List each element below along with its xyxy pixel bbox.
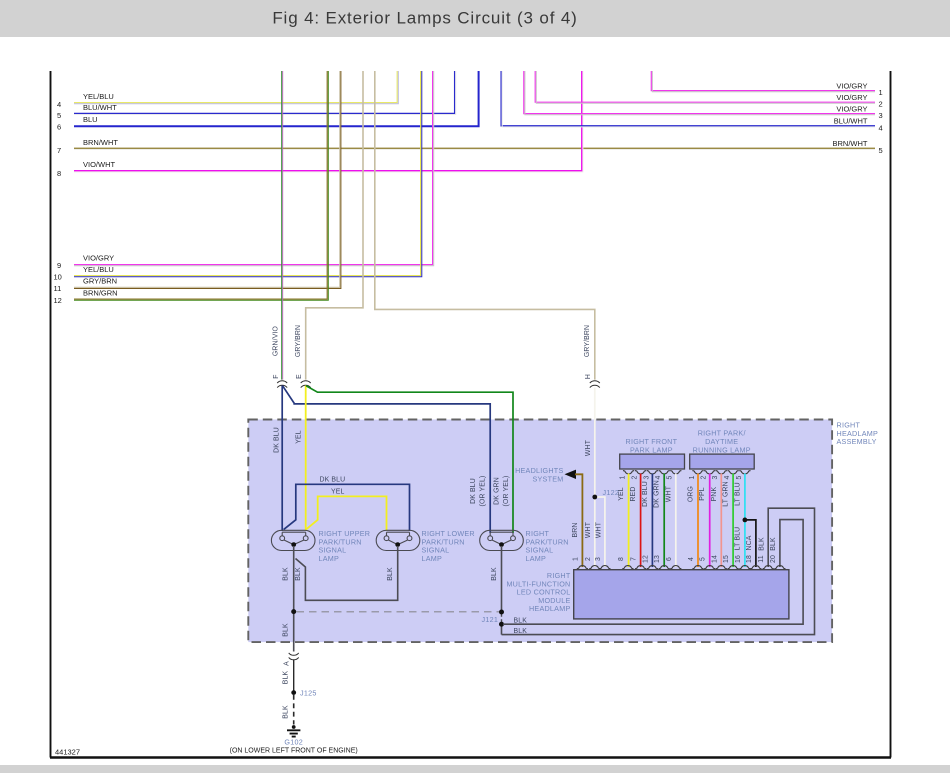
- lamp RIGHT UPPER PARK/TURN SIGNAL LAMP: [271, 530, 315, 550]
- svg-text:LT BLU: LT BLU: [734, 527, 741, 551]
- wire 8 VIO/WHT: [74, 71, 582, 171]
- svg-text:BLK: BLK: [770, 537, 777, 551]
- svg-text:12: 12: [642, 555, 649, 563]
- wire BLK A to J125: [293, 660, 295, 692]
- svg-text:2: 2: [632, 475, 639, 479]
- svg-text:20: 20: [770, 555, 777, 563]
- junction dot on LT BLU: [743, 518, 748, 523]
- header bar: [0, 0, 950, 37]
- svg-text:GRY/BRN: GRY/BRN: [584, 325, 591, 357]
- lamp RIGHT PARK/TURN SIGNAL LAMP: [480, 530, 524, 550]
- svg-text:441327: 441327: [55, 748, 80, 757]
- svg-text:ORG: ORG: [688, 486, 695, 502]
- svg-text:BRN/WHT: BRN/WHT: [833, 139, 868, 148]
- svg-text:BLK: BLK: [759, 537, 766, 551]
- svg-text:WHT: WHT: [585, 439, 592, 456]
- svg-text:18: 18: [746, 555, 753, 563]
- svg-text:BLU: BLU: [83, 115, 98, 124]
- svg-text:SYSTEM: SYSTEM: [532, 474, 563, 483]
- module pin numbers: [572, 555, 777, 563]
- wire BLK lamp3 ground drop: [501, 546, 503, 612]
- svg-text:DK BLU: DK BLU: [274, 427, 281, 453]
- wire DK BLU from connector F to lamp1 left terminal: [281, 386, 283, 532]
- svg-text:2: 2: [585, 557, 592, 561]
- svg-text:VIO/GRY: VIO/GRY: [836, 105, 867, 114]
- page border left: [50, 71, 52, 758]
- svg-text:5: 5: [736, 475, 743, 479]
- ground G102: [292, 725, 296, 729]
- svg-text:11: 11: [54, 284, 62, 293]
- svg-text:(ON LOWER LEFT FRONT OF ENGINE: (ON LOWER LEFT FRONT OF ENGINE): [230, 748, 358, 755]
- lamp RIGHT LOWER PARK/TURN SIGNAL LAMP: [376, 530, 420, 550]
- svg-text:WHT: WHT: [596, 521, 603, 538]
- svg-text:WHT: WHT: [585, 521, 592, 538]
- svg-text:4: 4: [879, 124, 883, 133]
- svg-text:3: 3: [712, 475, 719, 479]
- svg-text:BRN/GRN: BRN/GRN: [83, 289, 118, 298]
- svg-text:Fig 4: Exterior Lamps Circuit: Fig 4: Exterior Lamps Circuit (3 of 4): [272, 9, 577, 28]
- wire BLK lamp1 ground drop: [293, 546, 295, 640]
- svg-text:6: 6: [666, 557, 673, 561]
- junction J125 dot: [291, 690, 296, 695]
- svg-text:15: 15: [723, 555, 730, 563]
- svg-text:11: 11: [758, 555, 765, 562]
- svg-text:7: 7: [57, 146, 61, 155]
- wire 12 BRN/GRN: [74, 71, 327, 299]
- svg-text:5: 5: [879, 146, 883, 155]
- left pin labels: [54, 92, 119, 305]
- svg-text:DK GRN: DK GRN: [494, 477, 501, 505]
- wire 2 right VIO/GRY: [535, 71, 875, 102]
- wire GRY/BRN to connector E: [306, 71, 363, 380]
- svg-text:DK BLU: DK BLU: [470, 478, 477, 504]
- wire BLK J125 to ground (dashed): [293, 695, 295, 725]
- svg-text:J122: J122: [603, 488, 620, 497]
- connector E: [301, 381, 311, 388]
- wire WHT pin5 to module pin 6: [675, 474, 677, 568]
- junction J121 dots: [499, 610, 504, 615]
- arrow to headlights system: [565, 470, 577, 479]
- svg-text:DK BLU: DK BLU: [320, 477, 346, 484]
- svg-text:LT GRN: LT GRN: [723, 481, 730, 507]
- svg-text:1: 1: [689, 475, 696, 479]
- wire NCA branch to module pin 18: [745, 520, 756, 567]
- wire 3 right VIO/GRY: [524, 71, 875, 114]
- svg-text:G102: G102: [284, 738, 303, 747]
- svg-text:13: 13: [654, 555, 661, 563]
- svg-text:12: 12: [54, 296, 62, 305]
- svg-text:A: A: [284, 661, 291, 666]
- wire DK GRN pin4 to module pin 13: [663, 474, 665, 568]
- svg-text:LAMP: LAMP: [422, 554, 443, 563]
- wire 11 GRY/BRN: [74, 71, 340, 287]
- wire BLK module pin 20 return (inner loop): [503, 520, 803, 625]
- wire DK BLU bridge lamp1 to lamp2: [284, 484, 410, 531]
- connector F: [277, 381, 287, 388]
- wire 10 YEL/BLU: [74, 71, 421, 276]
- svg-text:WHT: WHT: [665, 485, 672, 502]
- label RIGHT HEADLAMP ASSEMBLY: [837, 421, 879, 447]
- svg-text:YEL/BLU: YEL/BLU: [83, 92, 114, 101]
- wire ORG pin1 to module pin 4: [697, 474, 699, 568]
- svg-text:YEL: YEL: [331, 489, 344, 496]
- svg-text:2: 2: [879, 100, 883, 109]
- svg-text:LAMP: LAMP: [319, 554, 340, 563]
- svg-text:BLK: BLK: [387, 567, 394, 581]
- svg-text:BLK: BLK: [283, 567, 290, 581]
- wire 1 right VIO/GRY: [651, 71, 875, 91]
- svg-text:4: 4: [724, 475, 731, 479]
- svg-text:14: 14: [711, 555, 718, 563]
- wire 9 VIO/GRY: [74, 71, 433, 265]
- page border right: [890, 71, 892, 758]
- wire PPL pin2 to module pin 5: [709, 474, 711, 568]
- wire YEL pin1 to module pin 8: [628, 474, 630, 568]
- svg-text:BRN/WHT: BRN/WHT: [83, 138, 118, 147]
- wire LT GRN pin4 to module pin 15: [732, 474, 734, 568]
- junction dot lamp1 ground: [291, 609, 296, 614]
- svg-text:5: 5: [700, 557, 707, 561]
- svg-text:E: E: [296, 374, 303, 379]
- svg-text:(OR YEL): (OR YEL): [503, 476, 510, 507]
- wire RED pin2 to module pin 7: [640, 474, 642, 568]
- svg-text:BLK: BLK: [283, 705, 290, 719]
- svg-text:4: 4: [655, 475, 662, 479]
- svg-text:BLK: BLK: [283, 623, 290, 637]
- svg-text:8: 8: [57, 169, 61, 178]
- wire YEL from connector E to lamp1 right terminal: [305, 386, 307, 532]
- svg-text:NCA: NCA: [746, 535, 753, 550]
- svg-text:HEADLAMP: HEADLAMP: [529, 604, 571, 613]
- svg-text:BLK: BLK: [491, 567, 498, 581]
- connector H: [590, 381, 600, 388]
- svg-text:YEL: YEL: [618, 487, 625, 500]
- wire 5 BLU/WHT: [74, 71, 455, 113]
- svg-text:RUNNING LAMP: RUNNING LAMP: [693, 445, 751, 454]
- svg-text:2: 2: [701, 475, 708, 479]
- svg-text:LT BLU: LT BLU: [734, 482, 741, 506]
- pins 1-5 of running lamp connector: [692, 471, 750, 474]
- svg-text:BRN: BRN: [572, 523, 579, 538]
- svg-text:RED: RED: [630, 487, 637, 502]
- wire LT BLU pin5 to module pin 16: [744, 474, 746, 568]
- footer bar: [0, 765, 950, 773]
- svg-text:VIO/GRY: VIO/GRY: [836, 82, 867, 91]
- wire GRY/BRN to connector H: [375, 71, 595, 380]
- svg-text:3: 3: [879, 111, 883, 120]
- wire 6 BLU: [74, 71, 479, 126]
- svg-text:F: F: [273, 374, 280, 378]
- wire BLK module pin 11 return (outer loop): [502, 508, 815, 634]
- wire GRN/VIO to connector F: [281, 71, 283, 380]
- svg-text:3: 3: [643, 475, 650, 479]
- svg-text:VIO/GRY: VIO/GRY: [83, 254, 114, 263]
- svg-text:16: 16: [735, 555, 742, 563]
- wire BRN to module pin 1: [575, 474, 582, 567]
- wire WHT from connector H down to junction J122: [594, 388, 596, 567]
- svg-text:BLU/WHT: BLU/WHT: [834, 117, 868, 126]
- svg-text:YEL: YEL: [296, 430, 303, 443]
- svg-text:BLK: BLK: [514, 618, 528, 625]
- wire 7 BRN/WHT: [74, 147, 875, 149]
- wire DK BLU (OR YEL) branch from F to lamp3 left terminal: [283, 386, 491, 533]
- wire YEL bridge lamp1 to lamp2: [306, 496, 387, 531]
- svg-text:6: 6: [57, 123, 61, 132]
- svg-text:GRN/VIO: GRN/VIO: [273, 325, 280, 356]
- svg-text:3: 3: [595, 557, 602, 561]
- svg-text:DK GRN: DK GRN: [654, 480, 661, 508]
- svg-text:BLK: BLK: [283, 671, 290, 685]
- wire 4 right BLU/WHT: [501, 71, 875, 126]
- svg-text:J121: J121: [482, 615, 499, 624]
- svg-text:5: 5: [667, 475, 674, 479]
- svg-text:BLK: BLK: [295, 567, 302, 581]
- svg-text:PPL: PPL: [699, 487, 706, 500]
- svg-text:VIO/WHT: VIO/WHT: [83, 160, 115, 169]
- svg-text:5: 5: [57, 111, 61, 120]
- svg-text:LAMP: LAMP: [526, 554, 547, 563]
- svg-text:GRY/BRN: GRY/BRN: [83, 277, 117, 286]
- wire 4 YEL/BLU: [74, 71, 397, 103]
- svg-text:J125: J125: [300, 689, 317, 698]
- svg-text:1: 1: [620, 475, 627, 479]
- svg-text:VIO/GRY: VIO/GRY: [836, 93, 867, 102]
- svg-text:H: H: [585, 374, 592, 379]
- wire BLK from box to connector A: [293, 640, 295, 652]
- module RIGHT MULTI-FUNCTION LED CONTROL MODULE HEADLAMP: [574, 570, 789, 619]
- wire J121 dashed junction line: [297, 611, 500, 613]
- svg-text:(OR YEL): (OR YEL): [480, 476, 487, 507]
- pins 1-5 of park lamp connector: [623, 471, 681, 474]
- svg-text:ASSEMBLY: ASSEMBLY: [837, 437, 877, 446]
- svg-text:8: 8: [618, 557, 625, 561]
- junction J122 dot: [592, 495, 597, 500]
- right pin labels: [833, 82, 883, 156]
- svg-text:YEL/BLU: YEL/BLU: [83, 265, 114, 274]
- svg-text:4: 4: [57, 100, 61, 109]
- svg-text:9: 9: [57, 261, 61, 270]
- svg-text:DK BLU: DK BLU: [642, 481, 649, 507]
- svg-text:1: 1: [572, 557, 579, 561]
- svg-text:PARK LAMP: PARK LAMP: [630, 445, 673, 454]
- wire WHT branch J122 to pin 3: [595, 497, 605, 567]
- svg-text:7: 7: [631, 557, 638, 561]
- module top pin arcs: [577, 566, 786, 569]
- wire DK GRN (OR YEL) from E to lamp3 right terminal: [306, 386, 513, 533]
- wire BLK lamp2 ground loop to lamp1: [296, 546, 398, 600]
- svg-text:GRY/BRN: GRY/BRN: [295, 325, 302, 357]
- page border bottom: [50, 756, 891, 759]
- svg-text:1: 1: [879, 88, 883, 97]
- svg-text:10: 10: [54, 273, 62, 282]
- connector A: [289, 653, 299, 660]
- svg-text:BLU/WHT: BLU/WHT: [83, 103, 117, 112]
- svg-text:4: 4: [688, 557, 695, 561]
- wire DK BLU pin3 to module pin 12: [651, 474, 653, 568]
- wire PNK pin3 to module pin 14: [720, 474, 722, 568]
- svg-text:PNK: PNK: [711, 486, 718, 501]
- svg-text:BLK: BLK: [514, 628, 528, 635]
